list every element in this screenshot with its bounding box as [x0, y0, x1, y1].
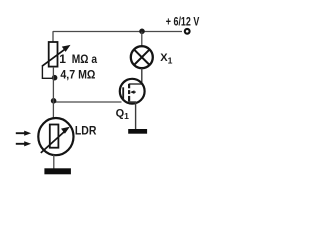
lamp X1 [131, 46, 153, 68]
supply terminal circle [185, 29, 190, 34]
potentiometer wiper arrow [42, 45, 71, 66]
wire top rail from pot corner to supply terminal [53, 31, 182, 33]
wire junction down to lamp X1 [141, 32, 143, 46]
node junction dot wiper return [52, 75, 58, 81]
Q1 channel segment source side [128, 96, 130, 102]
Q1 channel segment drain side [128, 84, 130, 89]
ground symbol under LDR [44, 168, 71, 174]
node junction dot on top rail (lamp branch) [139, 29, 145, 35]
light arrow upper [16, 131, 31, 136]
transistor Q1 MOSFET body circle [120, 79, 145, 104]
Q1 gate bar [122, 87, 124, 100]
Q1 channel segment middle (body) [128, 90, 130, 94]
Q1 source connection and lead down [129, 102, 136, 129]
svg-text:Q1: Q1 [116, 108, 130, 121]
svg-text:4,7 MΩ: 4,7 MΩ [60, 67, 95, 81]
wiper return elbow wire [42, 66, 53, 79]
label LDR [75, 124, 97, 138]
Q1 substrate arrow pointing to channel [130, 90, 135, 94]
node junction dot gate tee [51, 98, 57, 104]
wire pot bottom to LDR [52, 67, 54, 118]
ground symbol under Q1 [128, 129, 147, 134]
LDR resistor rectangle [50, 125, 59, 148]
LDR wiper-style arrow [41, 127, 70, 153]
wire gate lead from divider node [53, 101, 121, 103]
label X1 [160, 52, 172, 65]
label 1 MOhm a [59, 52, 97, 66]
wire LDR to ground [53, 155, 55, 169]
svg-text:+ 6/12 V: + 6/12 V [166, 15, 200, 29]
label Q1 [116, 108, 130, 121]
LDR body circle [38, 118, 73, 155]
wire corner stub down to potentiometer top [52, 31, 54, 42]
label 4,7 MOhm [60, 67, 95, 81]
potentiometer P1 body [49, 42, 58, 67]
label +6/12V supply [166, 15, 200, 29]
light arrow lower [16, 141, 31, 146]
svg-text:LDR: LDR [75, 124, 97, 138]
svg-text:1: 1 [59, 52, 66, 66]
wire lamp to MOSFET drain (bend inside circle) [129, 68, 142, 84]
svg-text:X1: X1 [160, 52, 172, 65]
svg-text:MΩ a: MΩ a [72, 52, 97, 66]
